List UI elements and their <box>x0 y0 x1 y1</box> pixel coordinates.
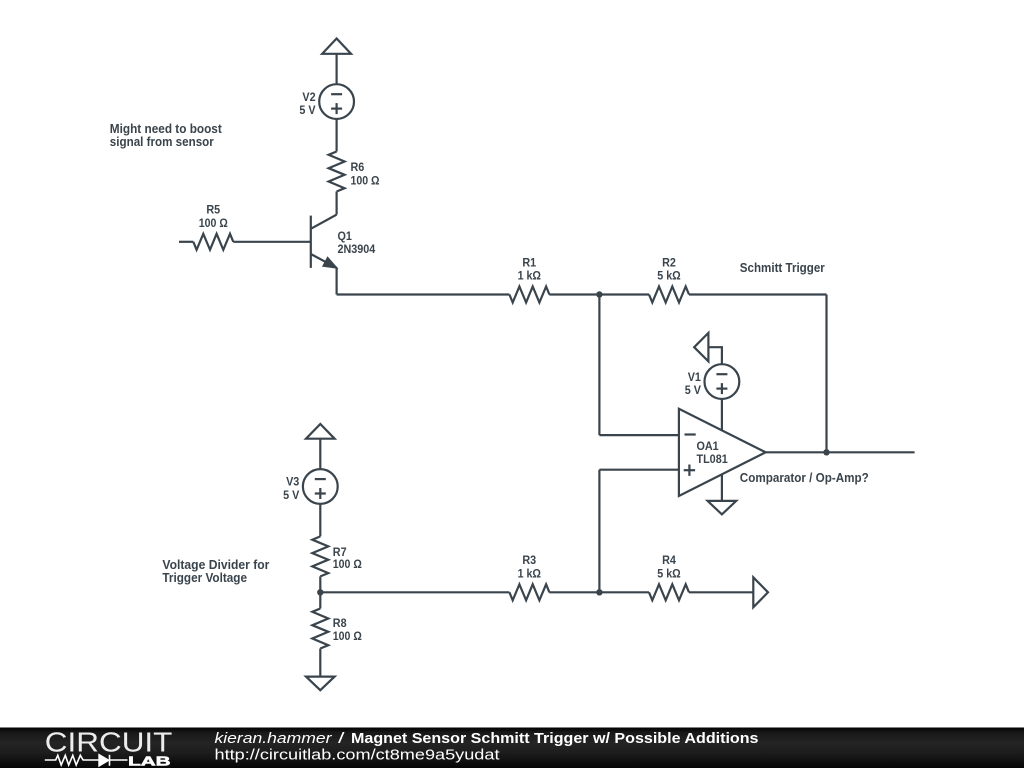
power flag +5V (V1, pointing left) <box>694 333 708 362</box>
svg-text:V2: V2 <box>302 90 315 104</box>
svg-text:OA1: OA1 <box>697 439 719 453</box>
svg-text:Trigger Voltage: Trigger Voltage <box>162 570 247 585</box>
wire (op-amp output) <box>766 451 915 453</box>
resistor R5 <box>179 241 193 243</box>
voltage source V2 <box>319 84 354 119</box>
resistor R8 <box>319 592 321 608</box>
svg-text:Schmitt Trigger: Schmitt Trigger <box>740 260 825 275</box>
svg-text:5 V: 5 V <box>685 383 701 397</box>
transistor Q1 2N3904 <box>310 216 312 268</box>
svg-text:LAB: LAB <box>128 754 170 768</box>
svg-text:1 kΩ: 1 kΩ <box>518 269 542 283</box>
wire <box>319 504 321 537</box>
node B junction <box>596 589 602 595</box>
svg-text:R3: R3 <box>522 553 536 567</box>
wire (node A down to inverting input) <box>598 295 600 436</box>
op-amp OA1 TL081 <box>679 409 766 496</box>
wire (V1 to op-amp V+) <box>721 399 723 430</box>
resistor R6 <box>329 152 345 192</box>
svg-text:TL081: TL081 <box>697 452 728 466</box>
power flag +5V (top) <box>322 39 351 54</box>
bottom banner bar <box>0 728 1024 768</box>
ground (divider) <box>306 677 335 691</box>
svg-text:Comparator / Op-Amp?: Comparator / Op-Amp? <box>740 470 869 485</box>
svg-text:http://circuitlab.com/ct8me9a5: http://circuitlab.com/ct8me9a5yudat <box>215 747 501 764</box>
svg-text:5 kΩ: 5 kΩ <box>657 269 681 283</box>
svg-text:signal from sensor: signal from sensor <box>110 134 214 149</box>
resistor R7 <box>312 536 328 576</box>
node B junction (divider) <box>317 589 323 595</box>
svg-text:R5: R5 <box>206 203 220 217</box>
svg-text:5 V: 5 V <box>299 103 315 117</box>
svg-text:R2: R2 <box>662 255 676 269</box>
wire (feedback, right vertical) <box>825 295 827 453</box>
node A junction <box>596 291 602 297</box>
svg-text:V3: V3 <box>286 475 299 489</box>
svg-text:5 kΩ: 5 kΩ <box>657 566 681 580</box>
logo resistor-diode glyph <box>45 755 128 766</box>
svg-text:V1: V1 <box>688 370 701 384</box>
power flag +5V (V3 top) <box>306 424 335 439</box>
wire <box>336 192 338 215</box>
voltage source V1 <box>705 364 740 399</box>
svg-text:5 V: 5 V <box>283 488 299 502</box>
svg-text:100 Ω: 100 Ω <box>199 216 228 230</box>
resistor R3 <box>509 584 549 600</box>
svg-text:kieran.hammer / Magnet Sensor: kieran.hammer / Magnet Sensor Schmitt Tr… <box>215 730 759 747</box>
wire <box>708 347 722 364</box>
resistor R1 <box>509 287 549 303</box>
ground (op-amp) <box>708 501 737 515</box>
svg-text:R4: R4 <box>662 553 676 567</box>
wire <box>337 293 510 295</box>
wire <box>320 591 509 593</box>
wire (node B up to non-inverting input) <box>599 469 679 471</box>
resistor R4 <box>649 584 689 600</box>
svg-text:100 Ω: 100 Ω <box>351 173 380 187</box>
svg-text:100 Ω: 100 Ω <box>333 629 362 643</box>
voltage source V3 <box>303 469 338 504</box>
svg-text:1 kΩ: 1 kΩ <box>518 566 542 580</box>
output junction <box>823 449 829 455</box>
wire <box>319 439 321 469</box>
wire (op-amp V- to ground) <box>721 470 723 501</box>
output port flag (right) <box>753 577 768 607</box>
wire <box>336 119 338 152</box>
wire <box>336 54 338 84</box>
svg-text:Q1: Q1 <box>338 229 353 243</box>
resistor R2 <box>649 287 689 303</box>
svg-text:R1: R1 <box>522 255 536 269</box>
svg-text:100 Ω: 100 Ω <box>333 557 362 571</box>
wire <box>336 268 338 295</box>
svg-text:2N3904: 2N3904 <box>338 242 376 256</box>
svg-text:R6: R6 <box>351 160 365 174</box>
